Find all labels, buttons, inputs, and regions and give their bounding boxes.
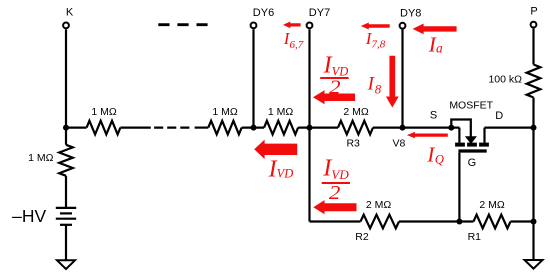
wire dashed main line: [154, 126, 189, 128]
svg-text:DY8: DY8: [400, 7, 421, 19]
svg-text:V8: V8: [392, 137, 405, 149]
svg-text:P: P: [530, 6, 537, 18]
resistor 1 Mohm (third, DY6-DY7): [264, 121, 298, 135]
svg-text:1 MΩ: 1 MΩ: [212, 106, 238, 118]
wire main line DY7 to R3: [298, 126, 338, 128]
mosfet U1 source loop wire: [451, 120, 471, 138]
svg-text:2 MΩ: 2 MΩ: [479, 199, 505, 211]
mosfet U1 body arrow: [465, 136, 477, 144]
resistor 1 Mohm (first, left): [87, 121, 121, 135]
svg-text:2 MΩ: 2 MΩ: [343, 106, 369, 118]
wire dashed chain hint top: [158, 23, 207, 26]
wire DY7 column: [308, 29, 310, 221]
resistor 1 Mohm (second): [208, 121, 241, 135]
node gate / bottom rail: [456, 219, 462, 225]
wire main line left lead: [66, 126, 87, 128]
wire main line to DY6 node: [242, 126, 264, 128]
svg-text:G: G: [468, 157, 477, 169]
resistor 1 Mohm vertical (K leg): [59, 145, 73, 176]
current arrow IVD/2 upper: [313, 90, 355, 104]
svg-text:R1: R1: [468, 231, 482, 243]
terminal DY7 circle: [307, 23, 313, 29]
battery -HV plate short bottom: [60, 224, 72, 226]
svg-text:2: 2: [329, 183, 341, 204]
mosfet U1 gate bar: [458, 149, 486, 152]
mosfet U1 source contact bar: [455, 143, 465, 147]
terminal P circle: [531, 22, 537, 28]
current arrow IVD/2 lower: [313, 200, 356, 214]
ground right: [525, 260, 543, 269]
wire battery to ground: [65, 225, 67, 261]
resistor R1 2 Mohm: [474, 215, 511, 229]
ground left: [57, 260, 75, 269]
svg-text:DY6: DY6: [253, 7, 274, 19]
node right column / main line: [531, 125, 537, 131]
current arrow IQ: [407, 132, 448, 138]
node DY7 junction: [307, 125, 313, 131]
svg-text:MOSFET: MOSFET: [449, 100, 493, 112]
wire K column to battery: [65, 176, 67, 208]
resistor R2 2 Mohm: [361, 215, 400, 229]
svg-text:DY7: DY7: [309, 7, 330, 19]
wire gate down to bottom rail: [458, 153, 460, 222]
wire bottom rail right: [511, 220, 534, 222]
mosfet U1 drain contact bar: [479, 143, 489, 147]
wire bottom rail left: [310, 220, 361, 222]
svg-text:1 MΩ: 1 MΩ: [28, 152, 54, 164]
mosfet U1 drain riser: [483, 128, 485, 143]
node S junction: [448, 125, 454, 131]
current arrow I8 (down): [386, 56, 399, 108]
wire DY6 column: [252, 29, 254, 127]
wire K column upper: [65, 29, 67, 145]
wire P column upper: [532, 28, 534, 64]
resistor 100 kohm vertical: [527, 65, 541, 98]
fraction bar IVD/2 upper: [320, 77, 348, 79]
battery -HV plate short: [60, 212, 72, 214]
node K / main line junction: [63, 125, 69, 131]
svg-text:100 kΩ: 100 kΩ: [488, 73, 522, 85]
current arrow I6,7: [283, 22, 301, 29]
mosfet U1 source riser: [458, 128, 460, 143]
wire main line: [120, 126, 150, 128]
svg-text:S: S: [430, 110, 437, 122]
resistor R3 2 Mohm: [338, 121, 373, 135]
mosfet U1 body contact bar: [467, 143, 477, 147]
svg-text:2 MΩ: 2 MΩ: [366, 199, 392, 211]
battery -HV plate long: [56, 218, 76, 220]
svg-text:R2: R2: [355, 231, 369, 243]
svg-text:–HV: –HV: [12, 206, 46, 226]
node V8 junction: [400, 125, 406, 131]
svg-text:K: K: [66, 6, 74, 18]
node R1 / right column bottom: [531, 219, 537, 225]
terminal DY8 circle: [400, 23, 406, 29]
terminal DY6 circle: [251, 23, 257, 29]
node DY6 junction: [251, 125, 257, 131]
svg-text:1 MΩ: 1 MΩ: [268, 106, 294, 118]
battery -HV plate long top: [56, 207, 76, 209]
wire main line R3 to MOSFET source: [373, 126, 459, 128]
wire main line: [195, 126, 209, 128]
wire DY8 column: [401, 29, 403, 127]
current arrow I7,8: [361, 23, 390, 30]
wire bottom rail middle: [399, 220, 474, 222]
svg-text:R3: R3: [346, 137, 360, 149]
svg-text:1 MΩ: 1 MΩ: [91, 106, 117, 118]
fraction bar IVD/2 lower: [322, 182, 350, 184]
current arrow IVD (big): [254, 140, 297, 159]
wire drain to right column: [485, 126, 534, 128]
svg-text:2: 2: [329, 77, 341, 98]
terminal K circle: [63, 23, 69, 29]
svg-text:D: D: [495, 110, 503, 122]
current arrow Ia: [413, 24, 457, 35]
wire P column lower: [532, 98, 534, 261]
